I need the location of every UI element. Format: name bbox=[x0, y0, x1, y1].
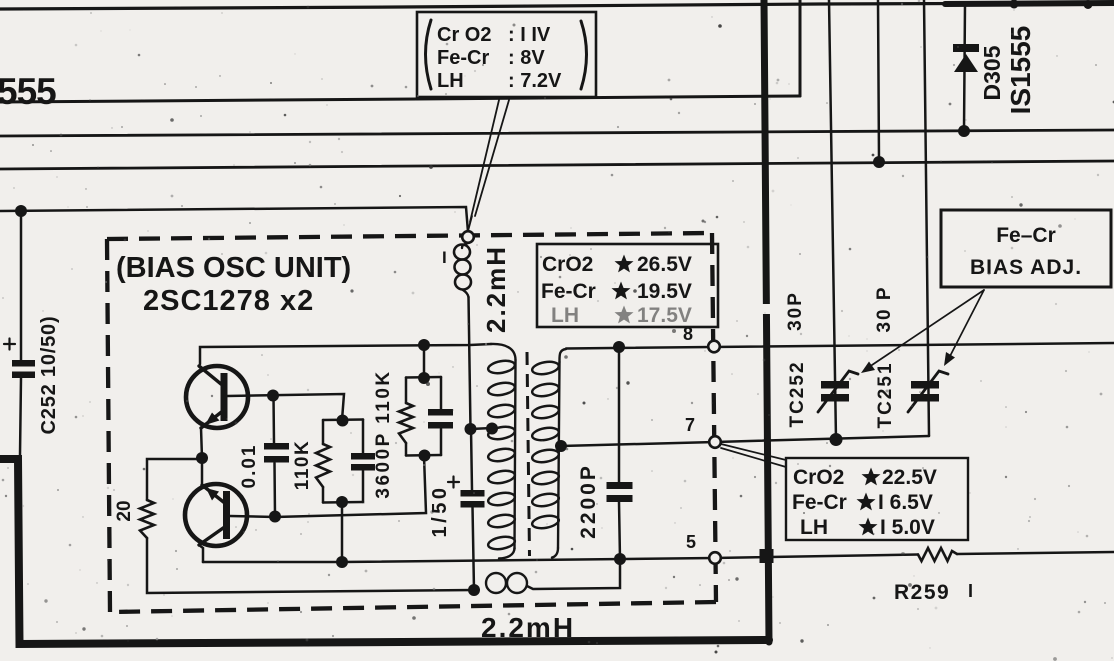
svg-text:CrO2: CrO2 bbox=[793, 466, 844, 489]
svg-text:17.5V: 17.5V bbox=[637, 304, 692, 327]
wire line E to pin 1 bbox=[0, 207, 468, 232]
thick wire left elbow and bottom bus bbox=[0, 459, 769, 644]
junction dot on line D bbox=[873, 156, 885, 168]
svg-text:5: 5 bbox=[686, 532, 696, 552]
svg-text:Fe–Cr: Fe–Cr bbox=[996, 224, 1056, 247]
svg-text:7: 7 bbox=[685, 415, 695, 435]
leader lines pin7 to callout bbox=[721, 444, 786, 467]
pin 7 row wire bbox=[561, 436, 929, 446]
wire emitter row to 20ohm bbox=[147, 459, 202, 500]
svg-text:C252 10/50): C252 10/50) bbox=[38, 316, 60, 435]
junction dot TC252 bottom bbox=[830, 433, 843, 446]
junction dot RC1 bottom bbox=[336, 496, 348, 508]
capacitor 0.01 branch bbox=[272, 396, 275, 444]
transformer primary winding bbox=[491, 344, 516, 360]
big left paren bbox=[426, 20, 432, 89]
junction dot center tap right bbox=[486, 423, 498, 435]
thick vertical bus wire bbox=[764, 0, 769, 642]
RC group 2 (110K + 3600P) bbox=[423, 345, 426, 377]
svg-text:I: I bbox=[442, 248, 447, 267]
wire diode branch bbox=[964, 4, 965, 130]
svg-text:(BIAS OSC UNIT): (BIAS OSC UNIT) bbox=[116, 252, 351, 284]
svg-text:I: I bbox=[968, 581, 973, 601]
top rail (Q1 collector to primary) bbox=[200, 344, 491, 364]
svg-text:2200P: 2200P bbox=[577, 463, 600, 539]
primary winding petals bbox=[487, 359, 516, 375]
svg-text:: 8V: : 8V bbox=[508, 47, 545, 69]
wire bus line D bbox=[0, 161, 1114, 169]
junction dot center tap left bbox=[465, 423, 477, 435]
wire coil to pin5 row bbox=[527, 559, 620, 589]
callout box2 text bbox=[541, 253, 692, 327]
choke 2.2mH loops bbox=[454, 245, 470, 260]
svg-text:CrO2: CrO2 bbox=[542, 253, 593, 276]
dashed box BIAS OSC UNIT bbox=[107, 233, 716, 612]
svg-text:2.2mH: 2.2mH bbox=[481, 612, 575, 643]
trimmer TC251 bbox=[911, 381, 939, 402]
wire bus line A thick right segment bbox=[945, 3, 1114, 4]
junction dot secondary tap bbox=[555, 440, 567, 452]
plus sign C252 bbox=[4, 339, 15, 350]
wire Q2 collector down bbox=[199, 545, 203, 562]
capacitor 1/50 plates bbox=[461, 490, 485, 508]
callout box voltages (CrO2 11V) bbox=[417, 12, 596, 97]
diode D305 bbox=[953, 44, 979, 72]
callout box CrO2 26.5V bbox=[537, 244, 718, 327]
pin 8 circle bbox=[708, 341, 720, 353]
junction dot RC1 bottom chain bbox=[336, 556, 348, 568]
svg-text:Fe-Cr: Fe-Cr bbox=[792, 491, 847, 514]
svg-text:0.01: 0.01 bbox=[239, 444, 260, 489]
wire Q2 base row bbox=[230, 456, 426, 517]
node blob on line A bbox=[1010, 0, 1019, 9]
svg-text:22.5V: 22.5V bbox=[882, 466, 937, 489]
trimmer TC252 bbox=[821, 381, 849, 402]
capacitor 3600P bbox=[428, 409, 453, 429]
svg-text:30 P: 30 P bbox=[874, 285, 895, 332]
svg-text:LH: LH bbox=[437, 70, 464, 92]
capacitor in RC1 bbox=[351, 453, 375, 471]
svg-text:BIAS ADJ.: BIAS ADJ. bbox=[970, 256, 1082, 279]
svg-text:Cr O2: Cr O2 bbox=[437, 24, 491, 46]
resistor 110K right bbox=[399, 403, 413, 443]
junction dot Q2 base/0.01 bbox=[269, 511, 281, 523]
svg-text:: 7.2V: : 7.2V bbox=[508, 70, 562, 92]
svg-text:3600P 110K: 3600P 110K bbox=[373, 369, 394, 498]
wire Q2 emitter up bbox=[201, 458, 204, 485]
junction square on thick bus bbox=[760, 549, 774, 563]
svg-text:30P: 30P bbox=[785, 291, 806, 331]
junction dot 2200P bottom / coil bbox=[614, 553, 626, 565]
Q1 emitter arrowhead bbox=[205, 413, 220, 426]
svg-text:2SC1278 x2: 2SC1278 x2 bbox=[143, 285, 314, 317]
svg-text:Fe-Cr: Fe-Cr bbox=[541, 280, 596, 303]
junction dot RC2 bottom bbox=[419, 450, 431, 462]
resistor R259 bbox=[918, 548, 957, 561]
svg-text:LH: LH bbox=[551, 304, 579, 327]
junction dot bottom coil bbox=[468, 584, 480, 596]
svg-text:R259: R259 bbox=[894, 581, 950, 604]
wire 20ohm to bottom coil line bbox=[147, 538, 474, 593]
transistor Q2 bbox=[185, 484, 247, 546]
wire bus line C bbox=[0, 130, 1114, 136]
secondary winding petals bbox=[531, 360, 560, 376]
svg-text:2.2mH: 2.2mH bbox=[481, 245, 511, 333]
big right paren bbox=[581, 21, 587, 89]
svg-text:8: 8 bbox=[683, 324, 693, 344]
pin 1 node circle bbox=[462, 231, 474, 243]
capacitor 2200P branch bbox=[618, 347, 621, 483]
Fe-Cr BIAS ADJ box bbox=[941, 210, 1111, 287]
wire center tap bbox=[471, 428, 493, 429]
svg-text:I 5.0V: I 5.0V bbox=[880, 516, 935, 539]
wire Q1 emitter down bbox=[201, 428, 202, 458]
svg-text:LH: LH bbox=[800, 516, 828, 539]
plus sign 1/50 bbox=[448, 477, 459, 488]
svg-text:TC252: TC252 bbox=[787, 360, 808, 427]
RC group 1 (110K + cap) bbox=[323, 418, 363, 421]
wire Q1 base bbox=[227, 394, 344, 420]
vertical wire ending on line D bbox=[878, 0, 879, 161]
svg-text:26.5V: 26.5V bbox=[637, 253, 692, 276]
pin 8 row wire bbox=[566, 343, 1114, 349]
wire RC1 bottom to collector row bbox=[341, 502, 344, 562]
pin 7 circle bbox=[709, 436, 721, 448]
transformer secondary winding bbox=[559, 349, 566, 362]
junction dot rail/RC2 bbox=[418, 339, 430, 351]
wire C252 branch lower bbox=[20, 378, 21, 455]
scan gap on thick bus bbox=[758, 304, 773, 314]
svg-text:: I IV: : I IV bbox=[508, 24, 551, 46]
svg-text:IS1555: IS1555 bbox=[1005, 26, 1036, 115]
wire tap to 1/50 cap bbox=[471, 429, 472, 490]
svg-text:555: 555 bbox=[0, 71, 56, 112]
node blob on line A bbox=[1084, 0, 1093, 9]
svg-text:19.5V: 19.5V bbox=[637, 280, 692, 303]
vertical wire to TC251 bbox=[924, 0, 929, 436]
callout box CrO2 22.5V bbox=[786, 458, 968, 540]
junction dot on line C bbox=[958, 125, 970, 137]
junction dot emitters bbox=[196, 452, 208, 464]
svg-text:D305: D305 bbox=[979, 45, 1005, 100]
junction dot Q1 base bbox=[267, 390, 279, 402]
resistor 20 ohm bbox=[140, 500, 154, 538]
callout box3 text bbox=[792, 466, 937, 539]
junction dot 2200P top bbox=[613, 341, 625, 353]
wire choke to center tap bbox=[469, 297, 471, 429]
capacitor C252 plates bbox=[12, 360, 35, 378]
Q2 emitter arrowhead bbox=[206, 488, 219, 501]
wire C252 branch upper bbox=[20, 211, 23, 361]
callout box1 text bbox=[437, 24, 562, 92]
wire riser of line B bbox=[799, 0, 802, 96]
arrow to TC252 bbox=[866, 290, 984, 369]
svg-text:Fe-Cr: Fe-Cr bbox=[437, 47, 489, 69]
resistor 110K left bbox=[316, 444, 330, 487]
svg-text:110K: 110K bbox=[292, 440, 313, 490]
svg-text:20: 20 bbox=[114, 500, 135, 521]
pin 5 row wire right bbox=[714, 555, 918, 559]
leader double line from box bbox=[468, 100, 509, 231]
wire Q2 collector row (pin5 row left) bbox=[203, 558, 714, 562]
svg-text:TC251: TC251 bbox=[875, 361, 896, 428]
wire bus line B bbox=[0, 96, 800, 102]
vertical wire to TC252 bbox=[829, 0, 836, 440]
transistor Q1 bbox=[186, 366, 248, 428]
arrow to TC251 bbox=[948, 290, 984, 360]
junction dot line E left bbox=[15, 205, 27, 217]
wire bus line A (top) bbox=[0, 3, 1114, 9]
pin 5 circle bbox=[709, 552, 721, 564]
transformer core dashed line bbox=[527, 352, 530, 556]
svg-text:I 6.5V: I 6.5V bbox=[878, 491, 933, 514]
feedback coil loops bbox=[486, 573, 506, 593]
